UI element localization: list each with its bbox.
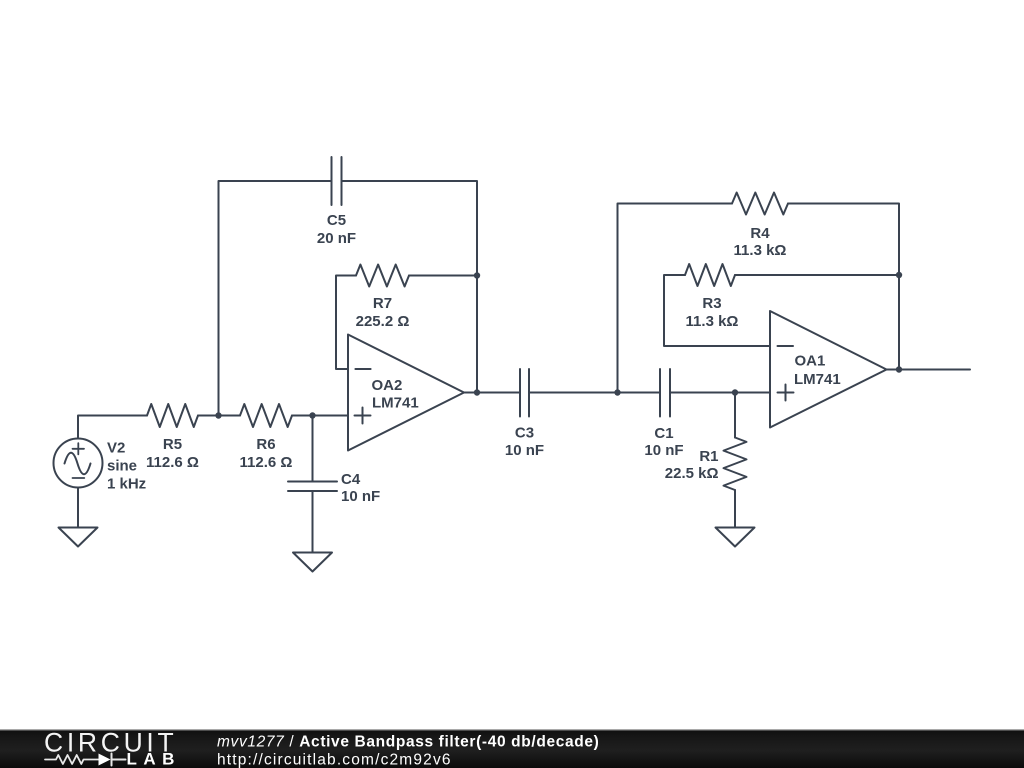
svg-text:C1: C1 (654, 425, 673, 442)
wire: R7 to right vertical (409, 275, 477, 277)
R6 value label (240, 436, 293, 471)
wire: C3 to C1 (529, 392, 660, 394)
ground under R1 (716, 528, 755, 547)
wire: R3 to output vertical (735, 274, 899, 276)
svg-text:11.3 kΩ: 11.3 kΩ (734, 242, 787, 259)
wire: C4 to ground (312, 491, 314, 553)
wire: OA2 output to C3 (464, 392, 520, 394)
OA2 label (OA2 / LM741) (372, 377, 419, 412)
resistor R7 (356, 265, 409, 287)
wire: R1 to ground (734, 490, 736, 528)
wire: junction down to R1 (734, 393, 736, 438)
V2 label (V2 / sine / 1 kHz) (107, 440, 146, 493)
svg-text:OA1: OA1 (795, 353, 826, 370)
svg-text:V2: V2 (107, 440, 125, 457)
C5 value label (317, 212, 356, 247)
svg-text:20 nF: 20 nF (317, 230, 356, 247)
wire: R6 to OA2 plus input (292, 415, 348, 417)
wire: V2 bottom to ground (77, 488, 79, 528)
wire: junction up to R4 rail (618, 204, 733, 393)
svg-text:22.5 kΩ: 22.5 kΩ (665, 465, 719, 482)
svg-text:R4: R4 (750, 225, 770, 242)
node: OA2 output junction (474, 389, 480, 395)
ground under V2 (59, 528, 98, 547)
wire: C5 to right vertical down to OA2 output (342, 181, 478, 393)
svg-text:11.3 kΩ: 11.3 kΩ (686, 313, 739, 330)
svg-text:mvv1277 / Active Bandpass filt: mvv1277 / Active Bandpass filter(-40 db/… (217, 734, 599, 751)
svg-text:R7: R7 (373, 295, 392, 312)
svg-text:http://circuitlab.com/c2m92v6: http://circuitlab.com/c2m92v6 (217, 752, 452, 768)
C3 value label (505, 425, 544, 460)
node: OA1 output junction (896, 366, 902, 372)
wire: OA2 minus loop to R7 (336, 276, 356, 370)
R4 value label (734, 225, 787, 259)
resistor R1 (724, 438, 747, 491)
svg-text:LAB: LAB (127, 750, 181, 768)
op-amp OA1 (770, 311, 887, 428)
footer bar (0, 729, 1024, 768)
svg-text:225.2 Ω: 225.2 Ω (356, 313, 410, 330)
node: C1/R1/OA1+ junction (732, 389, 738, 395)
OA1 label (OA1 / LM741) (794, 353, 841, 389)
wire: OA1 minus loop to R3 (664, 275, 770, 346)
capacitor C1 (660, 369, 670, 417)
wire: junction up and top rail to C5 (219, 181, 332, 416)
svg-text:C3: C3 (515, 425, 534, 442)
node: R5/R6/C5 junction (215, 412, 221, 418)
CircuitLab logo: resistor zigzag (45, 755, 99, 764)
C1 value label (644, 425, 683, 459)
svg-text:LM741: LM741 (372, 395, 419, 412)
R7 value label (356, 295, 410, 330)
capacitor C4 (288, 482, 337, 492)
resistor R3 (685, 264, 735, 286)
resistor R6 (240, 404, 292, 427)
node: R4 branch junction (614, 389, 620, 395)
svg-text:R3: R3 (702, 295, 721, 312)
voltage source V2 (54, 439, 103, 488)
wire: V2 top to R5 (78, 416, 147, 439)
node: R6/C4/OA2+ junction (309, 412, 315, 418)
node: R3/R4 vertical junction (896, 272, 902, 278)
svg-text:10 nF: 10 nF (644, 442, 683, 459)
svg-text:C5: C5 (327, 212, 346, 229)
wire: OA1 output (887, 369, 971, 371)
resistor R4 (732, 193, 788, 215)
svg-text:R6: R6 (256, 436, 275, 453)
C4 value label (341, 471, 380, 505)
capacitor C5 (332, 157, 342, 205)
R1 value label (665, 448, 719, 482)
svg-text:10 nF: 10 nF (505, 442, 544, 459)
svg-text:R1: R1 (699, 448, 718, 465)
svg-text:112.6 Ω: 112.6 Ω (240, 454, 293, 471)
resistor R5 (147, 404, 198, 427)
svg-text:R5: R5 (163, 436, 182, 453)
capacitor C3 (520, 369, 529, 417)
ground under C4 (293, 553, 332, 572)
svg-text:10 nF: 10 nF (341, 488, 380, 505)
svg-text:sine: sine (107, 458, 137, 475)
wire: junction down to C4 (312, 416, 314, 482)
svg-text:1 kHz: 1 kHz (107, 476, 146, 493)
wire: R4 right down to OA1 output (788, 204, 899, 370)
svg-text:LM741: LM741 (794, 371, 841, 388)
CircuitLab logo: diode symbol (99, 754, 126, 766)
R5 value label (146, 436, 199, 471)
wire: C1 to OA1 plus input (670, 392, 770, 394)
R3 value label (686, 295, 739, 330)
op-amp OA2 (348, 335, 464, 451)
svg-text:112.6 Ω: 112.6 Ω (146, 454, 199, 471)
svg-text:C4: C4 (341, 471, 361, 488)
svg-text:OA2: OA2 (372, 377, 403, 394)
wire: R5 to R6 (198, 415, 240, 417)
node: R7/C5-vertical junction (474, 272, 480, 278)
